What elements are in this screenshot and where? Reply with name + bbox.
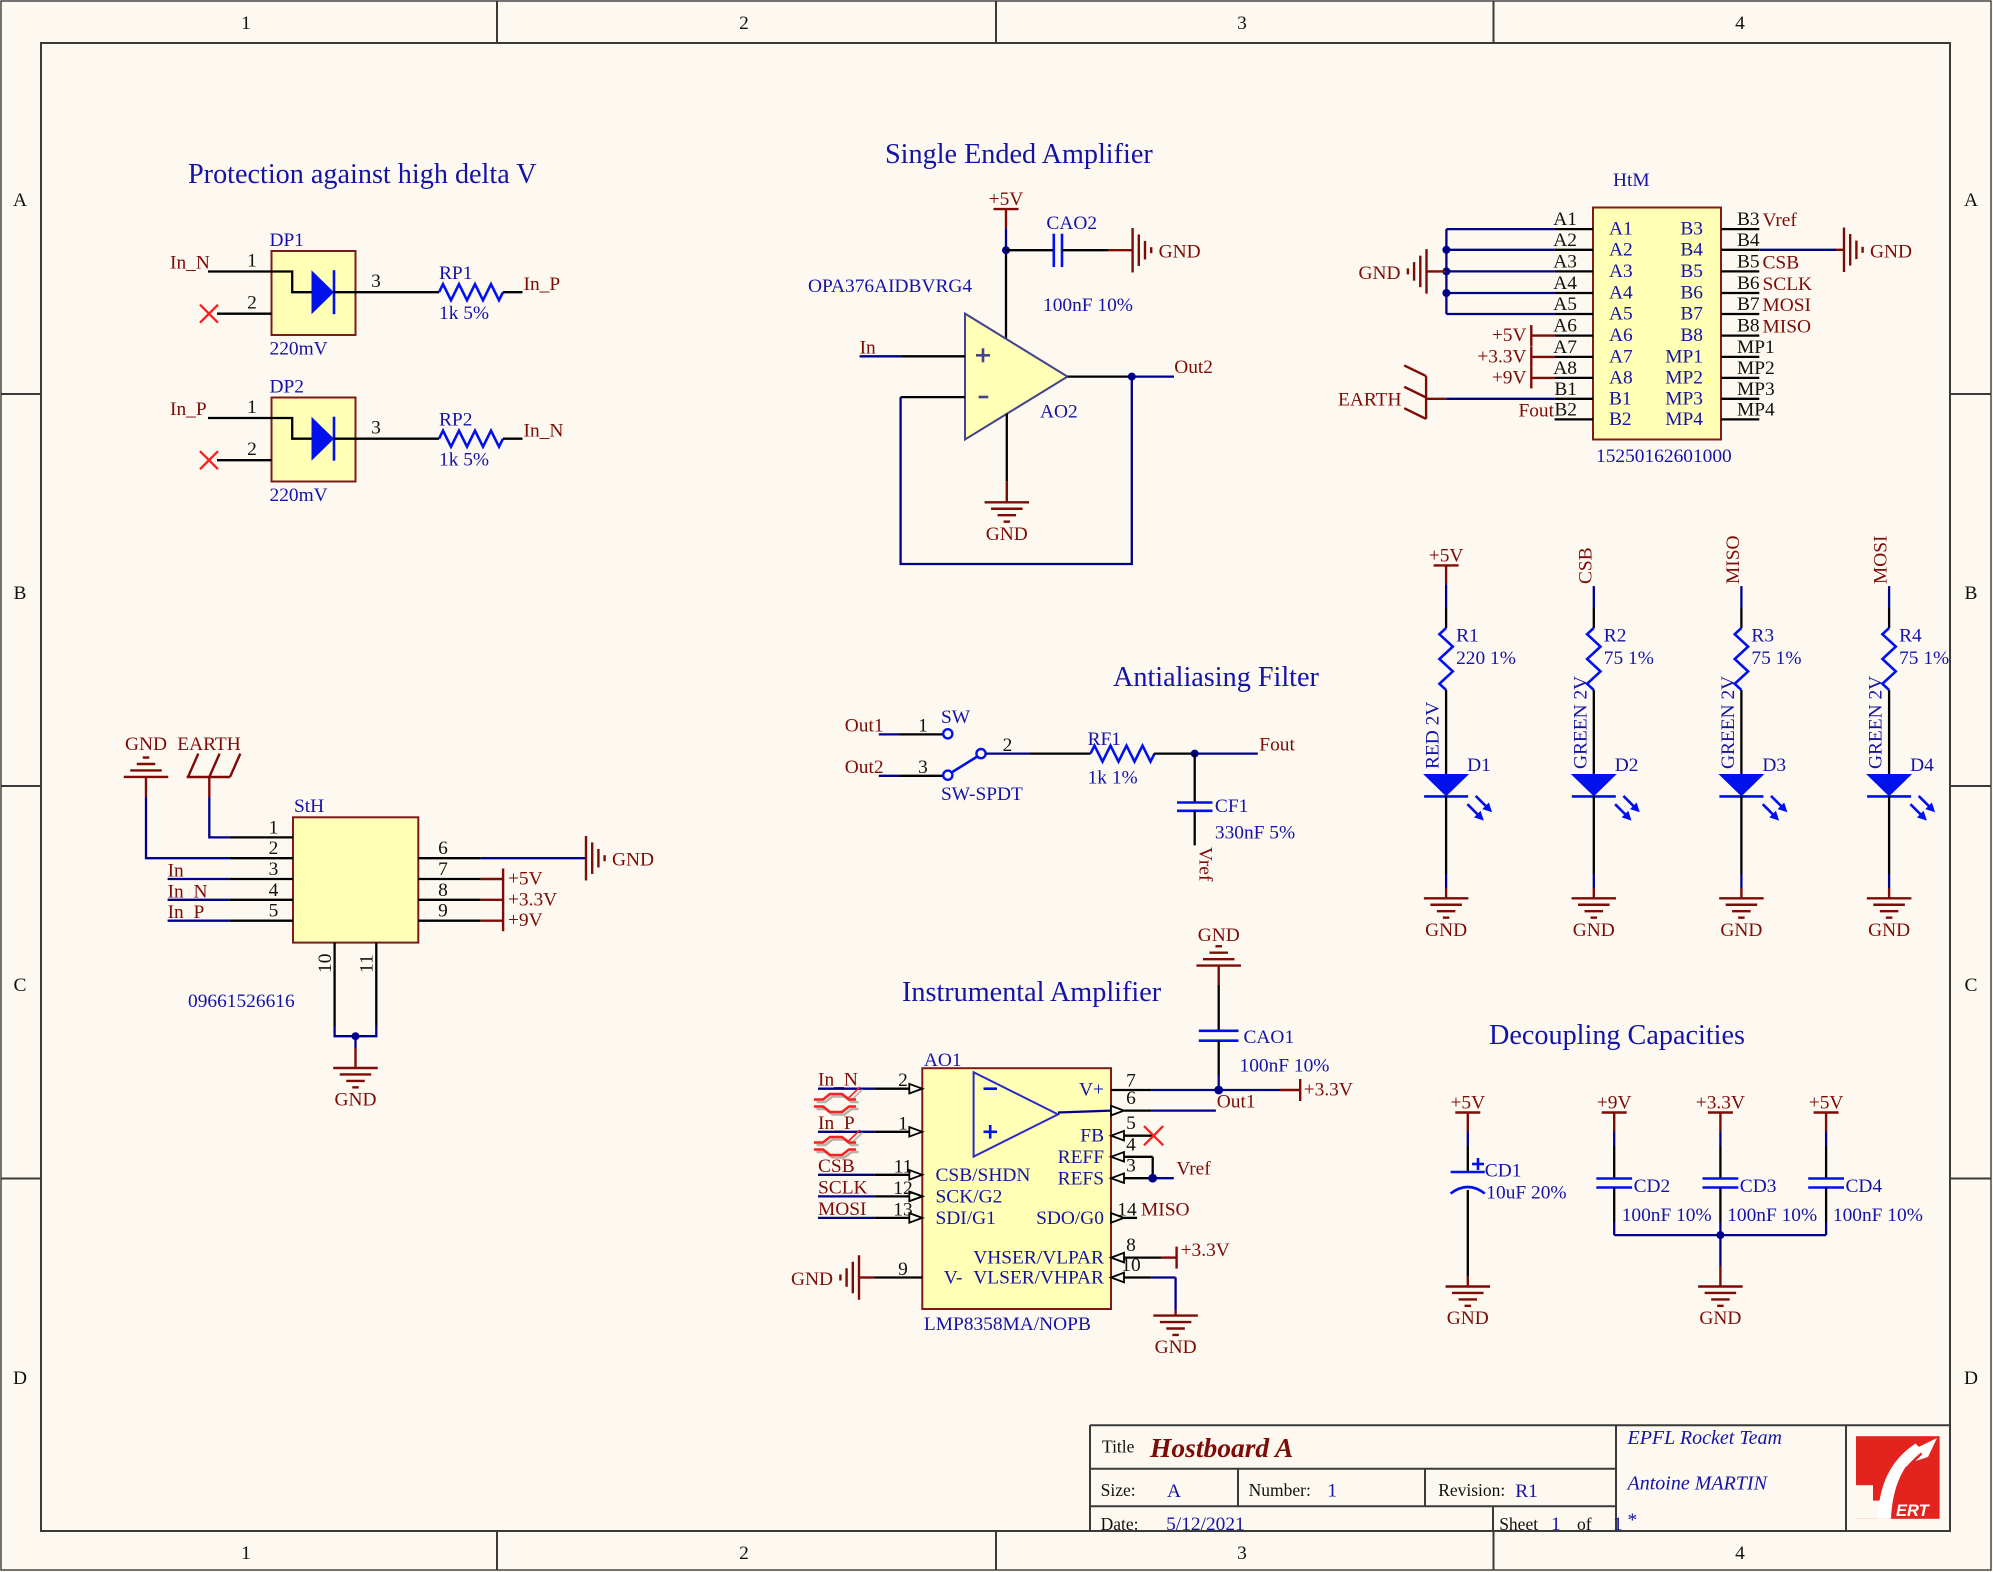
pin B5 (HtM right)	[1680, 251, 1759, 282]
svg-text:Single Ended Amplifier: Single Ended Amplifier	[885, 139, 1153, 170]
instrumentation amplifier AO1 LMP8358MA/NOPB	[922, 1050, 1111, 1335]
title Hostboard A	[1102, 1432, 1293, 1463]
svg-text:75 1%: 75 1%	[1604, 648, 1654, 669]
svg-text:R1: R1	[1456, 626, 1479, 647]
svg-text:DP2: DP2	[270, 377, 304, 398]
pin MP2 (HtM right)	[1665, 358, 1774, 389]
LED D3 GREEN 2V	[1718, 676, 1788, 821]
ground GND (right of HtM)	[1844, 228, 1912, 272]
resistor R2 75 1%	[1587, 626, 1654, 691]
svg-text:D1: D1	[1467, 755, 1491, 776]
wire D1 to GND	[1445, 796, 1447, 898]
ground GND (below CD1)	[1446, 1287, 1491, 1330]
power +5V (CD1)	[1450, 1093, 1485, 1132]
svg-text:*: *	[1628, 1510, 1638, 1531]
wire GND to CAO1	[1217, 966, 1219, 1031]
svg-text:GND: GND	[1870, 241, 1912, 262]
svg-text:GND: GND	[1155, 1337, 1197, 1358]
resistor R1 220 1%	[1439, 626, 1515, 691]
svg-text:VHSER/VLPAR: VHSER/VLPAR	[973, 1248, 1104, 1269]
svg-text:D: D	[1964, 1368, 1978, 1389]
pin MP1 (HtM right)	[1665, 337, 1774, 368]
svg-text:+5V: +5V	[1429, 545, 1464, 566]
svg-text:In_P: In_P	[170, 399, 207, 420]
svg-text:AO2: AO2	[1040, 402, 1078, 423]
svg-text:A8: A8	[1609, 367, 1633, 388]
svg-text:A3: A3	[1609, 261, 1633, 282]
svg-text:+5V: +5V	[989, 189, 1024, 210]
revision field	[1438, 1480, 1538, 1502]
switch SW SW-SPDT	[941, 707, 1023, 805]
svg-text:1: 1	[1613, 1514, 1623, 1535]
svg-text:+9V: +9V	[1492, 367, 1527, 388]
svg-text:1: 1	[898, 1113, 908, 1134]
wire R3 to D3	[1740, 690, 1742, 774]
svg-text:B1: B1	[1554, 379, 1577, 400]
svg-text:3: 3	[1237, 13, 1247, 34]
pin 14 (AO1 SDO/G0)	[1111, 1199, 1137, 1222]
svg-text:C: C	[14, 975, 27, 996]
svg-text:In_P: In_P	[524, 274, 561, 295]
svg-text:GND: GND	[612, 850, 654, 871]
power +9V (CD2)	[1597, 1093, 1632, 1132]
pin 2 (AO1 In_N)	[874, 1070, 922, 1093]
pin B1 (HtM left)	[1554, 379, 1631, 410]
svg-text:GND: GND	[1699, 1308, 1741, 1329]
svg-text:GND: GND	[1425, 920, 1467, 941]
svg-text:Fout: Fout	[1518, 400, 1554, 421]
svg-text:CD1: CD1	[1485, 1161, 1522, 1182]
svg-text:Decoupling Capacities: Decoupling Capacities	[1489, 1020, 1745, 1051]
svg-text:MP2: MP2	[1665, 367, 1703, 388]
svg-text:MISO: MISO	[1763, 317, 1812, 338]
wire CD1 to GND	[1467, 1190, 1469, 1287]
net label CSB (AO1 pin 11)	[818, 1156, 874, 1177]
svg-text:SW: SW	[941, 707, 971, 728]
pin 10 (AO1 VLSER/VHPAR)	[1111, 1255, 1152, 1282]
wire CSB to R2	[1593, 586, 1595, 628]
wire DP2 pin 3	[356, 418, 440, 439]
svg-text:+9V: +9V	[1597, 1093, 1632, 1114]
resistor RP2 1k 5%	[439, 410, 503, 471]
svg-text:B3: B3	[1680, 219, 1703, 240]
svg-text:75 1%: 75 1%	[1751, 648, 1801, 669]
pin 1 (StH left)	[230, 817, 293, 838]
svg-text:Number:: Number:	[1249, 1480, 1311, 1500]
svg-text:10: 10	[315, 954, 336, 973]
svg-text:Vref: Vref	[1176, 1159, 1211, 1180]
svg-text:CSB: CSB	[1575, 547, 1596, 584]
power +9V (StH pin 9)	[481, 910, 543, 931]
svg-text:2: 2	[1003, 735, 1013, 756]
svg-text:3: 3	[918, 757, 928, 778]
node Vref (below CF1)	[1195, 847, 1216, 882]
svg-text:MP3: MP3	[1737, 379, 1775, 400]
diode DP2	[270, 377, 356, 507]
svg-text:MP2: MP2	[1737, 358, 1775, 379]
node In_N (StH pin 4)	[168, 881, 230, 902]
size field	[1101, 1480, 1181, 1502]
svg-text:220mV: 220mV	[270, 485, 328, 506]
connector HtM 15250162601000	[1593, 170, 1732, 467]
svg-text:3: 3	[1237, 1543, 1247, 1564]
wire junction to CF1	[1194, 754, 1196, 803]
capacitor CAO2 100nF 10%	[1043, 213, 1133, 316]
wire R2 to D2	[1593, 690, 1595, 774]
svg-text:GND: GND	[791, 1269, 833, 1290]
pin MP4 (HtM right)	[1665, 399, 1775, 430]
svg-text:+5V: +5V	[1492, 325, 1527, 346]
differential pair mark (In_N)	[814, 1087, 863, 1115]
wire pins 10/11 to GND	[335, 1026, 377, 1068]
wire D2 to GND	[1593, 796, 1595, 898]
svg-text:D2: D2	[1615, 755, 1639, 776]
wire junction to Fout	[1195, 752, 1258, 754]
svg-text:R3: R3	[1751, 626, 1774, 647]
wire - input	[901, 396, 965, 398]
svg-text:A7: A7	[1553, 337, 1577, 358]
sheet field	[1499, 1514, 1623, 1535]
pin 3 (StH left)	[230, 859, 293, 880]
svg-text:2: 2	[247, 293, 257, 314]
junction REFS/Vref	[1148, 1174, 1157, 1183]
svg-text:3: 3	[269, 859, 279, 880]
pin 7 (AO1 V+)	[1111, 1071, 1152, 1092]
svg-text:8: 8	[1126, 1235, 1136, 1256]
svg-text:4: 4	[1735, 13, 1745, 34]
svg-text:Vref: Vref	[1763, 210, 1798, 231]
wire to In_P	[503, 291, 523, 293]
svg-text:10uF 20%: 10uF 20%	[1486, 1182, 1566, 1203]
wire R1 to D1	[1445, 690, 1447, 774]
svg-text:7: 7	[438, 859, 448, 880]
svg-text:MISO: MISO	[1141, 1199, 1190, 1220]
svg-text:1: 1	[241, 13, 251, 34]
svg-text:9: 9	[438, 901, 448, 922]
svg-text:GND: GND	[1573, 920, 1615, 941]
ground GND (below AO1)	[1153, 1316, 1198, 1359]
asterisk note	[1628, 1510, 1638, 1531]
pin 11 (AO1 CSB)	[874, 1156, 922, 1179]
op-amp AO2 OPA376AIDBVRG4	[808, 276, 1078, 440]
svg-text:MP4: MP4	[1665, 409, 1703, 430]
no-connect X on DP1 pin 2	[200, 293, 272, 323]
svg-text:3: 3	[371, 418, 381, 439]
ground GND (LED D4)	[1867, 898, 1912, 941]
svg-text:1: 1	[1551, 1514, 1561, 1535]
resistor R4 75 1%	[1882, 626, 1949, 691]
svg-text:2: 2	[898, 1070, 908, 1091]
svg-text:A1: A1	[1609, 219, 1633, 240]
power +5V (LED D1)	[1429, 545, 1464, 584]
svg-text:Date:: Date:	[1101, 1514, 1139, 1534]
svg-text:B5: B5	[1737, 251, 1760, 272]
svg-text:R2: R2	[1604, 626, 1627, 647]
ground GND (left of HtM)	[1358, 249, 1426, 294]
svg-text:GND: GND	[1358, 263, 1400, 284]
svg-text:1: 1	[1327, 1481, 1337, 1502]
svg-text:Fout: Fout	[1259, 735, 1295, 756]
wire op-amp V- to GND	[1006, 414, 1008, 503]
logo ERT	[1856, 1436, 1940, 1520]
diode DP1	[270, 230, 356, 360]
svg-text:B1: B1	[1609, 388, 1632, 409]
wire R4 to D4	[1888, 690, 1890, 774]
svg-text:EARTH: EARTH	[1338, 390, 1401, 411]
pin B8 (HtM right)	[1680, 316, 1759, 347]
svg-text:1k 5%: 1k 5%	[439, 450, 489, 471]
pin 12 (AO1 SCLK)	[874, 1178, 922, 1201]
svg-text:A: A	[1167, 1481, 1181, 1502]
svg-text:GND: GND	[125, 734, 167, 755]
pin A4 (HtM left)	[1553, 273, 1633, 304]
svg-text:GND: GND	[334, 1090, 376, 1111]
node Out1	[845, 715, 884, 736]
svg-text:Antialiasing Filter: Antialiasing Filter	[1113, 662, 1320, 693]
svg-text:+3.3V: +3.3V	[508, 889, 557, 910]
svg-text:8: 8	[438, 880, 448, 901]
svg-text:220 1%: 220 1%	[1456, 648, 1516, 669]
pin 1 (AO1 In_P)	[874, 1113, 922, 1136]
svg-text:MP1: MP1	[1665, 346, 1703, 367]
svg-text:REFS: REFS	[1058, 1169, 1104, 1190]
wire Out1 to SW pin 1	[879, 715, 943, 736]
wire CAO2 to GND	[1062, 249, 1133, 251]
svg-text:CSB: CSB	[1763, 252, 1800, 273]
svg-text:of: of	[1577, 1514, 1592, 1534]
wire to In_N	[503, 438, 523, 440]
svg-text:B2: B2	[1609, 409, 1632, 430]
wire +5V to CD4	[1825, 1132, 1827, 1179]
junction at Out2	[1128, 373, 1136, 381]
svg-text:D4: D4	[1910, 755, 1934, 776]
ground GND (above CAO1)	[1196, 925, 1241, 966]
pin B4 (HtM right)	[1680, 230, 1760, 260]
no-connect X on DP2 pin 2	[200, 439, 272, 469]
svg-text:1k 1%: 1k 1%	[1088, 768, 1138, 789]
svg-text:R4: R4	[1899, 626, 1922, 647]
net label In_N (AO1 pin 2)	[818, 1070, 874, 1091]
wire EARTH to B1	[1426, 398, 1555, 400]
svg-text:2: 2	[269, 838, 279, 859]
svg-text:RP1: RP1	[439, 263, 472, 284]
wire DP1 pin 3	[356, 271, 440, 292]
svg-text:B6: B6	[1680, 283, 1703, 304]
svg-text:ERT: ERT	[1896, 1502, 1931, 1520]
svg-text:A2: A2	[1553, 230, 1577, 251]
ground GND (left of AO1)	[791, 1255, 859, 1300]
pin A5 (HtM left)	[1553, 294, 1632, 325]
net label Vref (HtM B3)	[1763, 210, 1798, 231]
net label MOSI (LED D4)	[1871, 536, 1892, 585]
svg-text:GND: GND	[1159, 242, 1201, 263]
node Fout	[1259, 735, 1295, 756]
svg-text:2: 2	[247, 439, 257, 460]
svg-text:GND: GND	[1720, 920, 1762, 941]
feedback wire output to - input	[901, 377, 1132, 564]
svg-text:B8: B8	[1680, 325, 1703, 346]
svg-text:13: 13	[893, 1199, 912, 1220]
wire CF1 to Vref	[1194, 811, 1196, 846]
capacitor CF1 330nF 5%	[1177, 796, 1295, 844]
date field	[1101, 1514, 1245, 1535]
svg-text:1: 1	[247, 251, 257, 272]
wire Out2 to SW pin 3	[879, 757, 943, 778]
node In_N	[524, 421, 564, 442]
power +5V (CD4)	[1809, 1093, 1844, 1132]
pin B2 (HtM left)	[1554, 399, 1631, 430]
earth EARTH (top left)	[177, 734, 240, 777]
capacitor CD2 100nF 10%	[1596, 1176, 1711, 1226]
svg-text:GND: GND	[1198, 925, 1240, 946]
svg-text:15250162601000: 15250162601000	[1596, 446, 1732, 467]
svg-text:Antoine MARTIN: Antoine MARTIN	[1626, 1473, 1769, 1495]
power +3.3V (StH pin 8)	[481, 889, 557, 910]
pin 8 (AO1 VHSER/VLPAR)	[1111, 1235, 1161, 1262]
junction at Fout	[1191, 750, 1199, 758]
pin 9 (StH right)	[418, 901, 480, 922]
svg-text:FB: FB	[1080, 1126, 1104, 1147]
svg-text:Vref: Vref	[1195, 847, 1216, 882]
svg-text:A3: A3	[1553, 251, 1577, 272]
pin A6 (HtM left)	[1553, 316, 1633, 347]
svg-text:CAO2: CAO2	[1046, 213, 1097, 234]
pin B6 (HtM right)	[1680, 273, 1760, 304]
node In_P (StH pin 5)	[168, 902, 230, 923]
node In_N	[170, 253, 210, 274]
net label SCLK (AO1 pin 12)	[818, 1177, 874, 1198]
svg-text:B4: B4	[1737, 230, 1760, 251]
svg-text:+3.3V: +3.3V	[1181, 1240, 1230, 1261]
svg-text:GREEN 2V: GREEN 2V	[1718, 676, 1739, 769]
svg-text:100nF 10%: 100nF 10%	[1833, 1205, 1923, 1226]
svg-text:A6: A6	[1609, 325, 1633, 346]
svg-text:+5V: +5V	[508, 869, 543, 890]
svg-text:MP3: MP3	[1665, 388, 1703, 409]
svg-text:9: 9	[898, 1259, 908, 1280]
svg-text:RP2: RP2	[439, 410, 472, 431]
svg-text:4: 4	[1735, 1543, 1745, 1564]
node Out2	[1174, 357, 1213, 378]
svg-text:CAO1: CAO1	[1244, 1027, 1295, 1048]
node In_P	[170, 399, 207, 420]
power +3.3V (AO1 pin 8)	[1161, 1240, 1230, 1269]
svg-text:Sheet: Sheet	[1499, 1514, 1538, 1534]
svg-text:RF1: RF1	[1088, 729, 1121, 750]
svg-text:+5V: +5V	[1809, 1093, 1844, 1114]
wire +5V to R1	[1445, 584, 1447, 628]
junction CAO1/V+	[1214, 1086, 1223, 1095]
wire In_N to DP1 pin 1	[208, 251, 272, 272]
LED D1 RED 2V	[1423, 702, 1493, 821]
wire V+ to +3.3V	[1152, 1089, 1300, 1091]
svg-text:11: 11	[357, 954, 378, 973]
capacitor CD3 100nF 10%	[1703, 1176, 1818, 1226]
svg-text:B: B	[1965, 583, 1978, 604]
power +5V (AO2 supply)	[989, 189, 1024, 228]
svg-text:MISO: MISO	[1723, 536, 1744, 585]
svg-text:SCK/G2: SCK/G2	[936, 1186, 1003, 1207]
svg-text:4: 4	[269, 880, 279, 901]
svg-text:CF1: CF1	[1215, 796, 1248, 817]
svg-text:VLSER/VHPAR: VLSER/VHPAR	[973, 1268, 1104, 1289]
pin 4 (StH left)	[230, 880, 293, 901]
svg-text:SW-SPDT: SW-SPDT	[941, 784, 1023, 805]
svg-text:GND: GND	[1447, 1308, 1489, 1329]
power +5V (HtM A6)	[1492, 325, 1555, 346]
svg-text:A2: A2	[1609, 239, 1633, 260]
connector StH 09661526616	[188, 796, 418, 1012]
wire REFF to REFS	[1152, 1157, 1154, 1178]
svg-text:OPA376AIDBVRG4: OPA376AIDBVRG4	[808, 276, 972, 297]
svg-text:100nF 10%: 100nF 10%	[1622, 1205, 1712, 1226]
svg-text:1: 1	[918, 715, 928, 736]
svg-text:2: 2	[739, 1543, 749, 1564]
svg-text:CD2: CD2	[1634, 1176, 1671, 1197]
net label CSB (HtM B5)	[1763, 252, 1800, 273]
pin A3 (HtM left)	[1553, 251, 1632, 282]
svg-text:In_N: In_N	[524, 421, 564, 442]
power +9V (HtM A8)	[1492, 367, 1555, 388]
capacitor CAO1 100nF 10%	[1199, 1027, 1330, 1077]
wire CD2 to bus	[1613, 1188, 1615, 1236]
svg-text:A: A	[13, 190, 27, 211]
svg-text:3: 3	[1126, 1156, 1136, 1177]
svg-text:B7: B7	[1737, 294, 1760, 315]
wire D3 to GND	[1740, 796, 1742, 898]
svg-text:CD4: CD4	[1846, 1176, 1883, 1197]
wire +5V to op-amp V+ rail	[1005, 228, 1007, 339]
svg-text:DP1: DP1	[270, 230, 304, 251]
node In	[860, 337, 876, 358]
organization EPFL Rocket Team	[1627, 1427, 1782, 1449]
svg-text:6: 6	[438, 838, 448, 859]
svg-text:Out1: Out1	[845, 715, 884, 736]
svg-text:A6: A6	[1553, 316, 1577, 337]
svg-text:330nF 5%: 330nF 5%	[1215, 823, 1295, 844]
ground GND (LED D2)	[1572, 898, 1617, 941]
svg-text:B5: B5	[1680, 261, 1703, 282]
net label MOSI (AO1 pin 13)	[818, 1199, 874, 1220]
power +3.3V (CD3)	[1696, 1093, 1745, 1132]
svg-text:14: 14	[1117, 1199, 1137, 1220]
svg-text:5: 5	[1126, 1113, 1136, 1134]
svg-text:100nF 10%: 100nF 10%	[1240, 1056, 1330, 1077]
svg-text:MP4: MP4	[1737, 399, 1775, 420]
pin 6 (StH right)	[418, 838, 480, 859]
pin 5 (AO1 FB)	[1111, 1113, 1153, 1140]
svg-text:5/12/2021: 5/12/2021	[1166, 1514, 1245, 1535]
svg-text:HtM: HtM	[1613, 170, 1650, 191]
svg-text:10: 10	[1121, 1255, 1140, 1276]
wire MOSI to R4	[1888, 586, 1890, 628]
wire StH pin 6 to GND	[481, 857, 586, 859]
pin MP3 (HtM right)	[1665, 379, 1774, 410]
wire CD4 to bus	[1825, 1188, 1827, 1236]
svg-text:100nF 10%: 100nF 10%	[1043, 295, 1133, 316]
svg-text:SDO/G0: SDO/G0	[1036, 1208, 1104, 1229]
svg-text:GREEN 2V: GREEN 2V	[1866, 676, 1887, 769]
svg-text:+3.3V: +3.3V	[1477, 346, 1526, 367]
resistor RP1 1k 5%	[439, 263, 503, 324]
svg-text:REFF: REFF	[1058, 1147, 1105, 1168]
svg-text:Revision:: Revision:	[1438, 1480, 1505, 1500]
pin 7 (StH right)	[418, 859, 480, 880]
capacitor CD4 100nF 10%	[1808, 1176, 1923, 1226]
capacitor CD1 10uF 20% (polarized)	[1451, 1158, 1567, 1203]
node In (StH pin 3)	[168, 861, 230, 882]
pin 13 (AO1 MOSI)	[874, 1199, 922, 1222]
